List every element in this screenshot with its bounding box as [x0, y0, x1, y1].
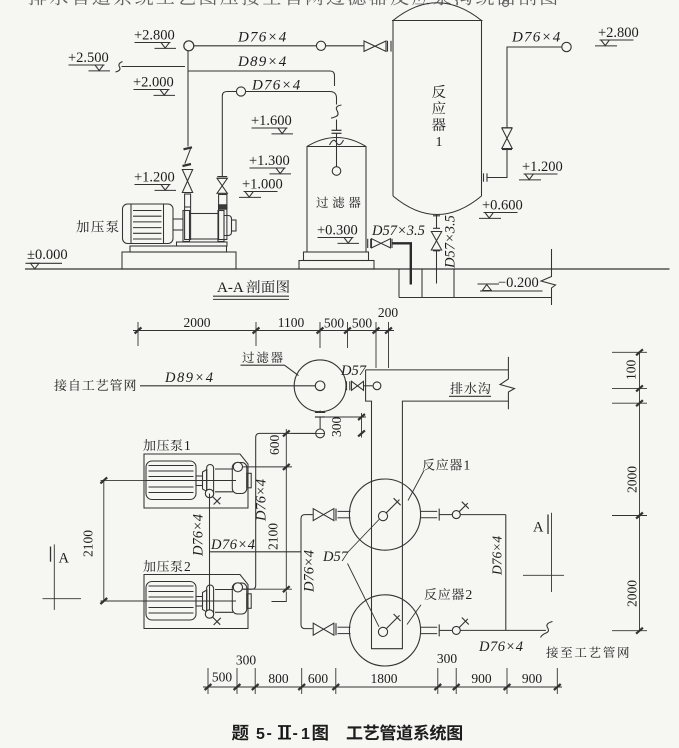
- suction pipe 1 (2D): [185, 194, 191, 240]
- svg-text:D57: D57: [340, 363, 367, 379]
- pipe D76x4 top horizontal: [194, 45, 364, 47]
- pipe D89x4: [188, 71, 335, 86]
- label 反应器1 + leader: [422, 459, 434, 471]
- pump P2 casing: [215, 589, 233, 591]
- pump P1 discharge elbow + closed valve: [205, 489, 213, 497]
- svg-text:-: -: [267, 725, 272, 742]
- svg-text:D76×4: D76×4: [478, 639, 524, 655]
- svg-text:300: 300: [437, 651, 458, 666]
- svg-text:1: 1: [301, 726, 310, 743]
- reactor R1 left nozzle: [338, 510, 351, 512]
- label 加压泵1: [143, 439, 155, 451]
- valve on pump suction 1: [182, 170, 192, 193]
- ditch break line: [500, 357, 515, 409]
- svg-text:900: 900: [471, 671, 492, 686]
- svg-text:2000: 2000: [184, 315, 211, 330]
- motor (section): [123, 204, 174, 244]
- svg-text:D57: D57: [322, 549, 349, 565]
- svg-text:2100: 2100: [81, 530, 96, 557]
- svg-text:D76×4: D76×4: [190, 514, 206, 557]
- svg-text:D76×4: D76×4: [490, 536, 505, 576]
- pump P1 shaft/coupling: [146, 480, 236, 482]
- svg-text:500: 500: [352, 316, 373, 331]
- svg-text:D76×4: D76×4: [254, 479, 270, 522]
- svg-text:+0.600: +0.600: [482, 198, 523, 214]
- svg-text:2000: 2000: [625, 466, 640, 493]
- filter base: [304, 252, 369, 261]
- filter plan label + leader: [242, 352, 254, 363]
- reactor R2 left nozzle: [338, 626, 351, 628]
- pump body (section): [183, 211, 190, 242]
- dip tube outlet circle: [332, 167, 341, 176]
- svg-text:+0.300: +0.300: [317, 223, 358, 239]
- jog below dimension: [272, 592, 287, 602]
- break squiggle on outlet pipe: [541, 622, 553, 638]
- svg-text:800: 800: [268, 671, 289, 686]
- right dimension column: [639, 352, 641, 630]
- top dimension line: [133, 330, 394, 332]
- reactor feed header (left, D76x4): [301, 515, 313, 629]
- svg-text:2: 2: [184, 559, 191, 574]
- reactor R1 outlet valve: [452, 511, 460, 519]
- pump pedestal: [177, 242, 228, 246]
- filter label: [316, 197, 328, 208]
- valve at reactor top inlet: [364, 41, 386, 51]
- svg-text:A: A: [533, 520, 544, 536]
- reactor R2 center nozzle: [378, 627, 387, 636]
- pipe node circle (junction at +2.800): [184, 41, 194, 51]
- elbow circle into ditch: [364, 385, 374, 387]
- pump P2 suction elbow circle: [233, 583, 242, 592]
- drain pipe to pit (thick): [393, 243, 411, 284]
- svg-text:D76×4: D76×4: [210, 537, 256, 553]
- svg-text:A-A: A-A: [217, 280, 244, 296]
- reactor R2 outlet valve: [452, 626, 460, 634]
- partial text line clipped at top edge: [29, 0, 557, 7]
- discharge header to reactors D76x4: [210, 551, 302, 553]
- svg-text:+1.000: +1.000: [242, 177, 283, 193]
- reactor R1 center nozzle: [378, 511, 387, 520]
- valve on pump suction 2: [217, 176, 227, 178]
- svg-text:1100: 1100: [278, 315, 305, 330]
- filter drain valve D57x3.5: [367, 239, 369, 248]
- svg-text:300: 300: [236, 653, 257, 668]
- suction pipe filter to pumps D76x4: [243, 433, 316, 589]
- svg-text:+2.800: +2.800: [134, 28, 175, 44]
- riser circle on top pipe: [316, 41, 325, 50]
- svg-text:2000: 2000: [625, 580, 640, 607]
- pump P2 motor: [146, 582, 196, 621]
- svg-text:D57×3.5: D57×3.5: [371, 223, 425, 239]
- pump P1 baseplate: [144, 454, 248, 508]
- filter outlet elbow circle: [316, 429, 325, 438]
- +2.500 level line with S-break: [116, 62, 123, 73]
- svg-text:D76×4: D76×4: [302, 550, 318, 593]
- pipe D89x4 plan: [140, 385, 315, 387]
- svg-text:−0.200: −0.200: [498, 275, 539, 291]
- pump P1 casing: [215, 468, 233, 470]
- svg-text:A: A: [59, 551, 70, 567]
- label 反应器2 + leader: [424, 588, 436, 600]
- svg-text:1: 1: [436, 135, 443, 150]
- filter drain valve plan D57: [346, 381, 348, 390]
- pump P1 motor: [146, 461, 196, 500]
- pump P2 baseplate: [144, 575, 248, 629]
- pump base plinth: [122, 252, 236, 269]
- suction pipe 2 (2D): [219, 195, 227, 240]
- 2100 dimension left: [101, 479, 150, 481]
- svg-text:100: 100: [624, 360, 639, 381]
- svg-text:+2.000: +2.000: [133, 75, 174, 91]
- product header right D76x4: [460, 514, 506, 516]
- filter bottom nozzle: [319, 411, 321, 413]
- filter plan circle: [294, 360, 346, 412]
- drainage ditch channel: [366, 369, 509, 371]
- pump P2 shaft/coupling: [146, 600, 236, 602]
- svg-text:-: -: [293, 725, 298, 742]
- label 加压泵: [76, 220, 88, 232]
- svg-text:+1.600: +1.600: [251, 113, 292, 129]
- motor shaft: [173, 219, 183, 230]
- svg-text:1: 1: [184, 438, 191, 453]
- svg-text:D89×4: D89×4: [164, 370, 215, 386]
- caption 题5-II-1图 工艺管道系统图: [232, 725, 249, 741]
- 300 dimension (filter): [325, 416, 366, 418]
- svg-text:1: 1: [464, 458, 471, 473]
- reactor R2 right nozzle: [421, 626, 437, 628]
- elbow circle on filter pipe: [236, 87, 245, 96]
- pump P1 suction elbow circle: [233, 462, 242, 471]
- 2100 dimension right: [285, 467, 287, 589]
- svg-text:+2.500: +2.500: [68, 50, 109, 66]
- label 排水沟: [450, 382, 462, 394]
- left suction pipe from junction down: [187, 51, 189, 147]
- pump base strip: [130, 246, 227, 252]
- svg-text:500: 500: [212, 670, 233, 685]
- svg-text:5: 5: [256, 726, 265, 743]
- valve reactor2 feed: [313, 623, 334, 635]
- ground line ±0.000: [25, 268, 670, 270]
- pump P2 discharge elbow + closed valve: [205, 610, 213, 618]
- svg-text:+1.300: +1.300: [249, 153, 290, 169]
- svg-text:D76×4: D76×4: [511, 30, 561, 46]
- svg-text:1800: 1800: [371, 671, 398, 686]
- reactor R1 plan circle: [349, 479, 420, 550]
- svg-text:2: 2: [466, 587, 473, 602]
- svg-text:200: 200: [378, 305, 399, 320]
- svg-text:D89×4: D89×4: [237, 54, 287, 70]
- bottom dimension line: [203, 686, 562, 688]
- valve reactor1 feed: [313, 509, 334, 521]
- pit under reactor: [398, 269, 400, 298]
- 600 dimension: [292, 432, 325, 434]
- break squiggle on filter riser: [331, 105, 342, 118]
- svg-text:D76×4: D76×4: [237, 30, 287, 46]
- svg-text:±0.000: ±0.000: [27, 247, 68, 263]
- reactor bottom drain: [433, 215, 440, 217]
- label 接至工艺管网: [546, 646, 558, 658]
- reactor 1 vessel: [392, 21, 394, 197]
- svg-text:D57×3.5: D57×3.5: [443, 215, 459, 269]
- svg-text:+1.200: +1.200: [134, 170, 175, 186]
- svg-text:300: 300: [329, 417, 344, 438]
- ground break line right: [541, 249, 556, 305]
- reactor R2 plan circle: [349, 595, 420, 666]
- filter top flange: [332, 129, 342, 131]
- reactor R1 right nozzle: [421, 510, 437, 512]
- svg-text:600: 600: [308, 671, 329, 686]
- svg-text:900: 900: [522, 671, 543, 686]
- reactor label 反应器1: [432, 85, 446, 98]
- reactor side outlet right: [483, 173, 485, 181]
- Z pipe break: [184, 147, 193, 149]
- svg-text:600: 600: [267, 435, 282, 456]
- discharge pipe pumps vertical: [209, 494, 211, 611]
- filter vessel: [307, 138, 366, 253]
- label 加压泵2: [143, 560, 155, 572]
- svg-text:+2.800: +2.800: [598, 25, 639, 41]
- section mark A left: [50, 547, 52, 562]
- svg-text:500: 500: [324, 316, 345, 331]
- svg-text:2100: 2100: [266, 523, 281, 550]
- label 接自工艺管网: [54, 379, 66, 391]
- svg-text:+1.200: +1.200: [522, 159, 563, 175]
